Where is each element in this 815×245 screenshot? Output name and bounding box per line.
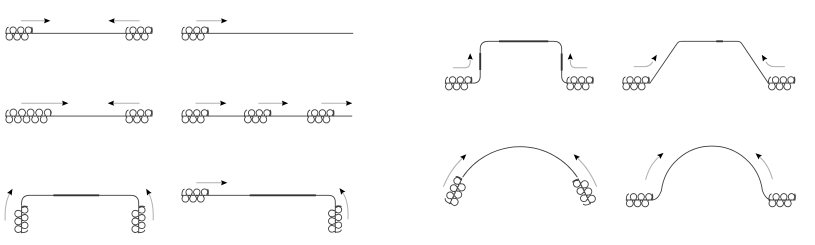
left coil of strand 6 [181, 189, 208, 202]
right coil of strand 3 [125, 110, 152, 123]
second coil of strand 4 [244, 110, 271, 123]
first rightward arrow (strand 4) [196, 101, 227, 106]
left coil of strand 1 [5, 27, 32, 40]
left coil of dome strand [626, 194, 653, 207]
bold segment on left riser [479, 53, 481, 70]
curved up arrow at right end of strand 6 [337, 187, 348, 220]
hanging coil at right end of strand 6 [328, 206, 341, 233]
strand 6 line with rounded corner down [208, 195, 335, 206]
first coil of strand 4 [181, 110, 208, 123]
right curved arrow along dome [754, 151, 773, 179]
right bent up arrow (plateau) [568, 53, 588, 68]
second rightward arrow (strand 4) [258, 101, 288, 106]
right curved arrow along arc [572, 152, 597, 186]
bold segment on plateau top [499, 40, 548, 42]
rightward arrow over coil (strand 6) [196, 180, 227, 185]
left coil of plateau strand [445, 77, 472, 90]
bold duplex segment on strand 6 [250, 194, 316, 196]
right coil of trapezoid strand [768, 77, 795, 90]
strand 3 line [50, 115, 125, 117]
trapezoid strand (baseline, slopes, top) [649, 41, 768, 83]
strand 1 line [32, 32, 125, 34]
third rightward arrow (strand 4) [321, 101, 352, 106]
left coil of strand 2 [181, 27, 208, 40]
rightward arrow over left coil (strand 1) [21, 18, 51, 23]
strand 2 line [208, 32, 353, 34]
left curved up arrow of staple [5, 188, 15, 221]
tilted right coil on arc [572, 176, 597, 208]
leftward arrow over right coil (strand 3) [108, 101, 140, 106]
right coil of dome strand [768, 194, 795, 207]
right coil of plateau strand [566, 77, 593, 90]
right coil of strand 1 [125, 27, 152, 40]
right curved diagonal arrow (trapezoid) [760, 53, 785, 66]
right hanging coil of staple [132, 206, 145, 233]
right curved up arrow of staple [144, 188, 153, 221]
bold tick on trapezoid top [716, 40, 723, 42]
left hanging coil of staple [15, 206, 28, 233]
left curved arrow along dome [646, 151, 666, 180]
rightward arrow over long coil (strand 3) [21, 101, 68, 106]
left curved diagonal arrow (trapezoid) [634, 53, 659, 66]
dome strand (arch with flared feet) [652, 146, 771, 200]
staple strand (top line with two rounded corners and vertical sides) [22, 195, 139, 206]
large arc strand [463, 147, 578, 177]
long left coil of strand 3 [5, 109, 52, 123]
left curved arrow along arc [443, 152, 468, 186]
left bent up arrow (plateau) [453, 53, 473, 68]
tilted left coil on arc [443, 176, 468, 208]
bold duplex segment on staple top line [53, 194, 99, 196]
strand 4 line [208, 115, 352, 117]
left coil of trapezoid strand [622, 77, 649, 90]
rightward arrow over coil (strand 2) [196, 18, 227, 23]
plateau strand (baseline, risers, top) [472, 41, 570, 83]
leftward arrow over right coil (strand 1) [108, 18, 139, 23]
third coil of strand 4 [307, 110, 334, 123]
bold segment on right riser [561, 54, 563, 71]
